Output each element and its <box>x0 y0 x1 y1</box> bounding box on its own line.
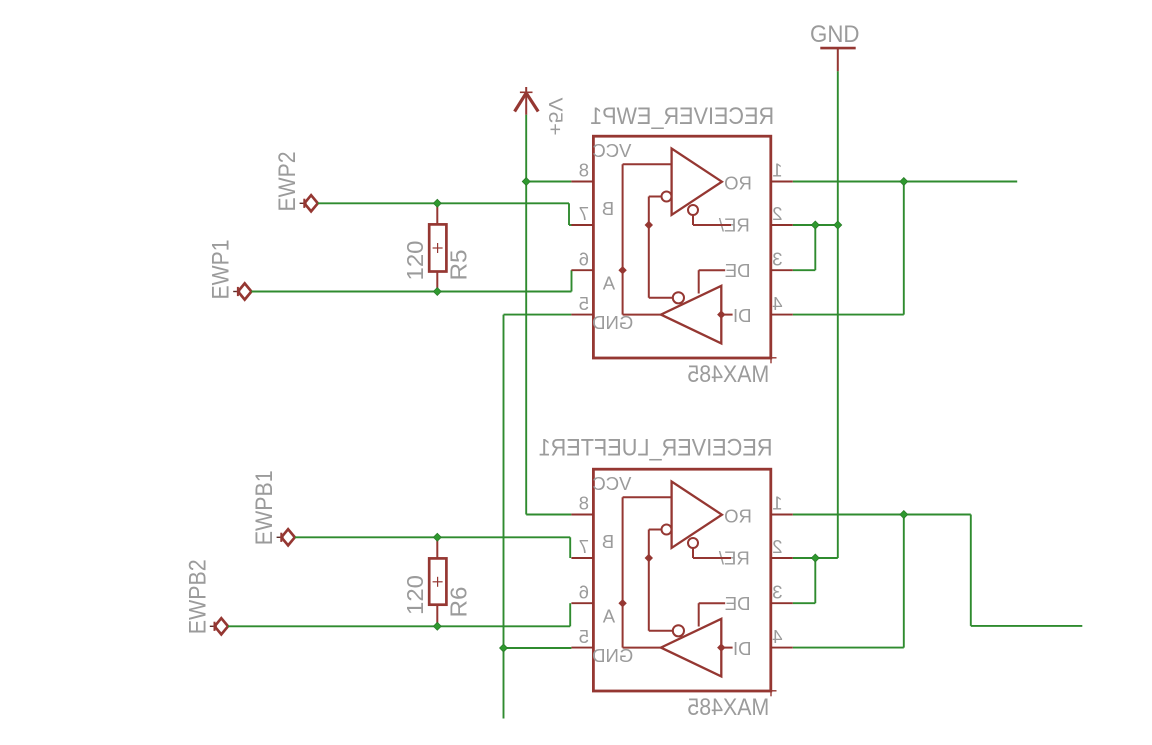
port EWPB2 origin cross <box>210 625 217 627</box>
svg-text:8: 8 <box>579 160 589 181</box>
svg-text:B: B <box>602 198 614 219</box>
wire net GND2 IC1 pin5 <box>504 314 572 316</box>
IC U2 driver buffer triangle <box>661 619 721 677</box>
wire net EWP1 horizontal <box>251 291 571 293</box>
IC U2 internal junction B <box>645 554 653 562</box>
IC U1 pin 1 stub <box>771 181 793 183</box>
IC U2 receiver enable bubble and line to /RE <box>688 538 698 548</box>
svg-text:6: 6 <box>579 581 589 602</box>
svg-text:RO: RO <box>724 505 752 526</box>
wire net EWP2 horizontal <box>318 202 569 204</box>
IC U1 driver buffer triangle <box>661 286 721 344</box>
junction net GND at IC1 pin2 <box>834 221 842 229</box>
IC U1 driver enable line DE <box>699 269 726 271</box>
supply symbol GND bar <box>820 47 855 50</box>
IC U1 receiver B input bubble <box>662 192 672 202</box>
resistor R6 bottom lead <box>436 605 438 627</box>
svg-text:R6: R6 <box>445 587 471 618</box>
connector pin EWP1 diamond <box>238 283 251 299</box>
wire net RO1 vertical loop <box>903 182 905 315</box>
IC U1 receiver buffer triangle <box>672 149 722 215</box>
IC U1 internal junction B <box>645 221 653 229</box>
svg-text:MAX485: MAX485 <box>687 361 769 388</box>
IC U1 pin 7 stub <box>571 224 593 226</box>
svg-text:RO: RO <box>724 172 752 193</box>
IC U2 pin 4 stub <box>771 647 793 649</box>
svg-text:3: 3 <box>772 248 782 269</box>
resistor R6 origin cross <box>433 581 443 583</box>
wire net EWPB1 vertical jog <box>569 537 571 558</box>
supply symbol +5V arrowhead right <box>526 93 538 112</box>
wire net +5V vertical from arrow <box>525 115 527 182</box>
svg-text:EWPB2: EWPB2 <box>185 559 212 634</box>
IC U1 pin 5 stub <box>571 314 593 316</box>
wire net RO2 bottom horizontal <box>971 625 1083 627</box>
resistor R6 top lead <box>436 537 438 558</box>
IC U2 DI input line <box>721 647 732 649</box>
svg-text:B: B <box>602 531 614 552</box>
svg-text:5: 5 <box>579 626 589 647</box>
junction net EWP2 at R5 <box>433 199 441 207</box>
IC U1 internal net A <box>623 163 672 165</box>
wire IC1 pin2-pin3 vertical <box>814 225 816 270</box>
svg-text:R5: R5 <box>445 250 471 281</box>
wire net RO1 horizontal <box>793 181 1017 183</box>
connector pin EWP2 diamond <box>304 195 317 211</box>
junction net RO2 <box>900 511 908 519</box>
wire IC2 pin2-pin3 vertical <box>814 558 816 603</box>
svg-text:7: 7 <box>579 536 589 557</box>
wire net EWPB2 horizontal <box>228 625 570 627</box>
resistor R5 body <box>429 224 446 271</box>
port EWP2 origin cross <box>300 202 307 204</box>
svg-text:A: A <box>602 272 615 293</box>
svg-text:120: 120 <box>402 241 428 281</box>
IC U1 internal net B <box>648 197 650 298</box>
svg-text:DI: DI <box>733 638 752 659</box>
IC U1 pin 6 stub <box>571 269 593 271</box>
svg-text:+5V: +5V <box>544 97 565 135</box>
IC U2 receiver buffer triangle <box>672 482 722 548</box>
svg-text:VCC: VCC <box>592 140 631 161</box>
resistor R5 top lead <box>436 203 438 224</box>
svg-text:DI: DI <box>733 305 752 326</box>
svg-text:1: 1 <box>772 160 782 181</box>
IC U1 driver B output bubble <box>673 292 684 303</box>
IC U2 internal net B <box>648 530 650 631</box>
svg-text:120: 120 <box>402 575 428 615</box>
svg-text:MAX485: MAX485 <box>687 694 769 721</box>
IC U1 MAX485 body outline <box>593 136 770 358</box>
svg-text:EWP1: EWP1 <box>208 240 235 300</box>
svg-text:2: 2 <box>772 536 782 557</box>
IC U2 origin cross <box>766 690 777 692</box>
IC U2 pin 8 stub <box>571 514 593 516</box>
svg-text:DE: DE <box>725 593 751 614</box>
svg-text:RECEIVER_LUEFTER1: RECEIVER_LUEFTER1 <box>539 435 773 462</box>
junction net EWPB1 at R6 <box>433 533 441 541</box>
IC U1 DI input line <box>721 314 732 316</box>
wire net GND vertical middle <box>837 225 839 558</box>
svg-text:1: 1 <box>772 493 782 514</box>
svg-text:GND: GND <box>810 21 860 48</box>
wire net EWPB1 horizontal <box>295 536 570 538</box>
IC U2 internal junction A <box>618 599 626 607</box>
IC U2 pin 7 stub <box>571 557 593 559</box>
svg-text:3: 3 <box>772 581 782 602</box>
wire net +5V to IC2 pin8 <box>526 514 571 516</box>
supply symbol +5V cross bar <box>520 91 533 93</box>
IC U1 receiver enable bubble and line to /RE <box>688 205 698 215</box>
resistor R5 origin cross <box>433 247 443 249</box>
junction net EWP1 at R5 <box>433 288 441 296</box>
svg-text:4: 4 <box>772 293 782 314</box>
svg-text:5: 5 <box>579 293 589 314</box>
IC U2 pin 5 stub <box>571 647 593 649</box>
junction IC1 pin2 tie <box>811 221 819 229</box>
svg-text:6: 6 <box>579 248 589 269</box>
IC U2 pin 6 stub <box>571 602 593 604</box>
wire net GND2 vertical <box>503 315 505 719</box>
IC U2 driver B output bubble <box>673 625 684 636</box>
supply symbol +5V arrowhead left <box>515 93 527 112</box>
svg-text:2: 2 <box>772 203 782 224</box>
wire net RO2 right vertical <box>970 515 972 626</box>
wire net RO2 vertical loop <box>903 515 905 648</box>
wire net GND IC1 pin2 segment <box>793 224 838 226</box>
IC U1 pin 4 stub <box>771 314 793 316</box>
supply symbol GND stub <box>837 48 839 71</box>
IC U2 internal net A <box>623 496 672 498</box>
IC U1 internal junction A <box>618 266 626 274</box>
junction net RO1 <box>900 178 908 186</box>
svg-text:A: A <box>602 605 615 626</box>
IC U1 origin cross <box>766 357 777 359</box>
wire net GND vertical from symbol <box>837 71 839 225</box>
svg-text:7: 7 <box>579 203 589 224</box>
resistor R6 body <box>429 558 446 604</box>
port EWP1 origin cross <box>233 291 240 293</box>
connector pin EWPB2 diamond <box>215 618 228 634</box>
wire net +5V vertical down to IC2 <box>525 182 527 515</box>
IC U1 pin 3 stub <box>771 269 793 271</box>
junction net +5V <box>522 178 530 186</box>
wire IC1 pin3 segment <box>793 269 816 271</box>
wire net GND to IC2 pin2 <box>793 557 838 559</box>
connector pin EWPB1 diamond <box>281 529 294 545</box>
IC U2 driver enable line DE <box>699 602 726 604</box>
wire net GND2 IC2 pin5 <box>504 647 572 649</box>
wire net EWP1 vertical jog <box>571 270 573 291</box>
resistor R5 bottom lead <box>436 272 438 292</box>
svg-text:RECEIVER_EWP1: RECEIVER_EWP1 <box>590 103 774 130</box>
IC U1 pin 2 stub <box>771 224 793 226</box>
wire net EWP2 vertical jog <box>568 203 570 225</box>
IC U2 pin 1 stub <box>771 514 793 516</box>
wire net RO2 to pin4 <box>793 647 904 649</box>
wire net EWP2 to pin7 <box>569 224 572 226</box>
svg-text:VCC: VCC <box>592 473 631 494</box>
IC U2 receiver B input bubble <box>662 525 672 535</box>
svg-text:4: 4 <box>772 626 782 647</box>
junction IC2 pin2 tie <box>811 554 819 562</box>
junction net GND2 <box>500 644 508 652</box>
wire net +5V to IC1 pin8 <box>526 181 571 183</box>
IC U2 internal junction DI <box>717 643 725 651</box>
wire net RO2 horizontal <box>793 514 971 516</box>
wire IC2 pin3 segment <box>793 602 816 604</box>
IC U1 pin 8 stub <box>571 181 593 183</box>
junction net EWPB2 at R6 <box>433 622 441 630</box>
svg-text:EWP2: EWP2 <box>274 152 301 212</box>
wire net RO1 to pin4 <box>793 314 904 316</box>
IC U2 MAX485 body outline <box>593 469 770 691</box>
svg-text:EWPB1: EWPB1 <box>251 470 278 545</box>
supply symbol +5V arrow stem <box>525 87 527 115</box>
IC U2 pin 3 stub <box>771 602 793 604</box>
IC U2 pin 2 stub <box>771 557 793 559</box>
IC U1 internal junction DI <box>717 310 725 318</box>
port EWPB1 origin cross <box>277 536 284 538</box>
svg-text:8: 8 <box>579 493 589 514</box>
wire net EWPB2 vertical jog <box>569 603 571 626</box>
svg-text:DE: DE <box>725 260 751 281</box>
